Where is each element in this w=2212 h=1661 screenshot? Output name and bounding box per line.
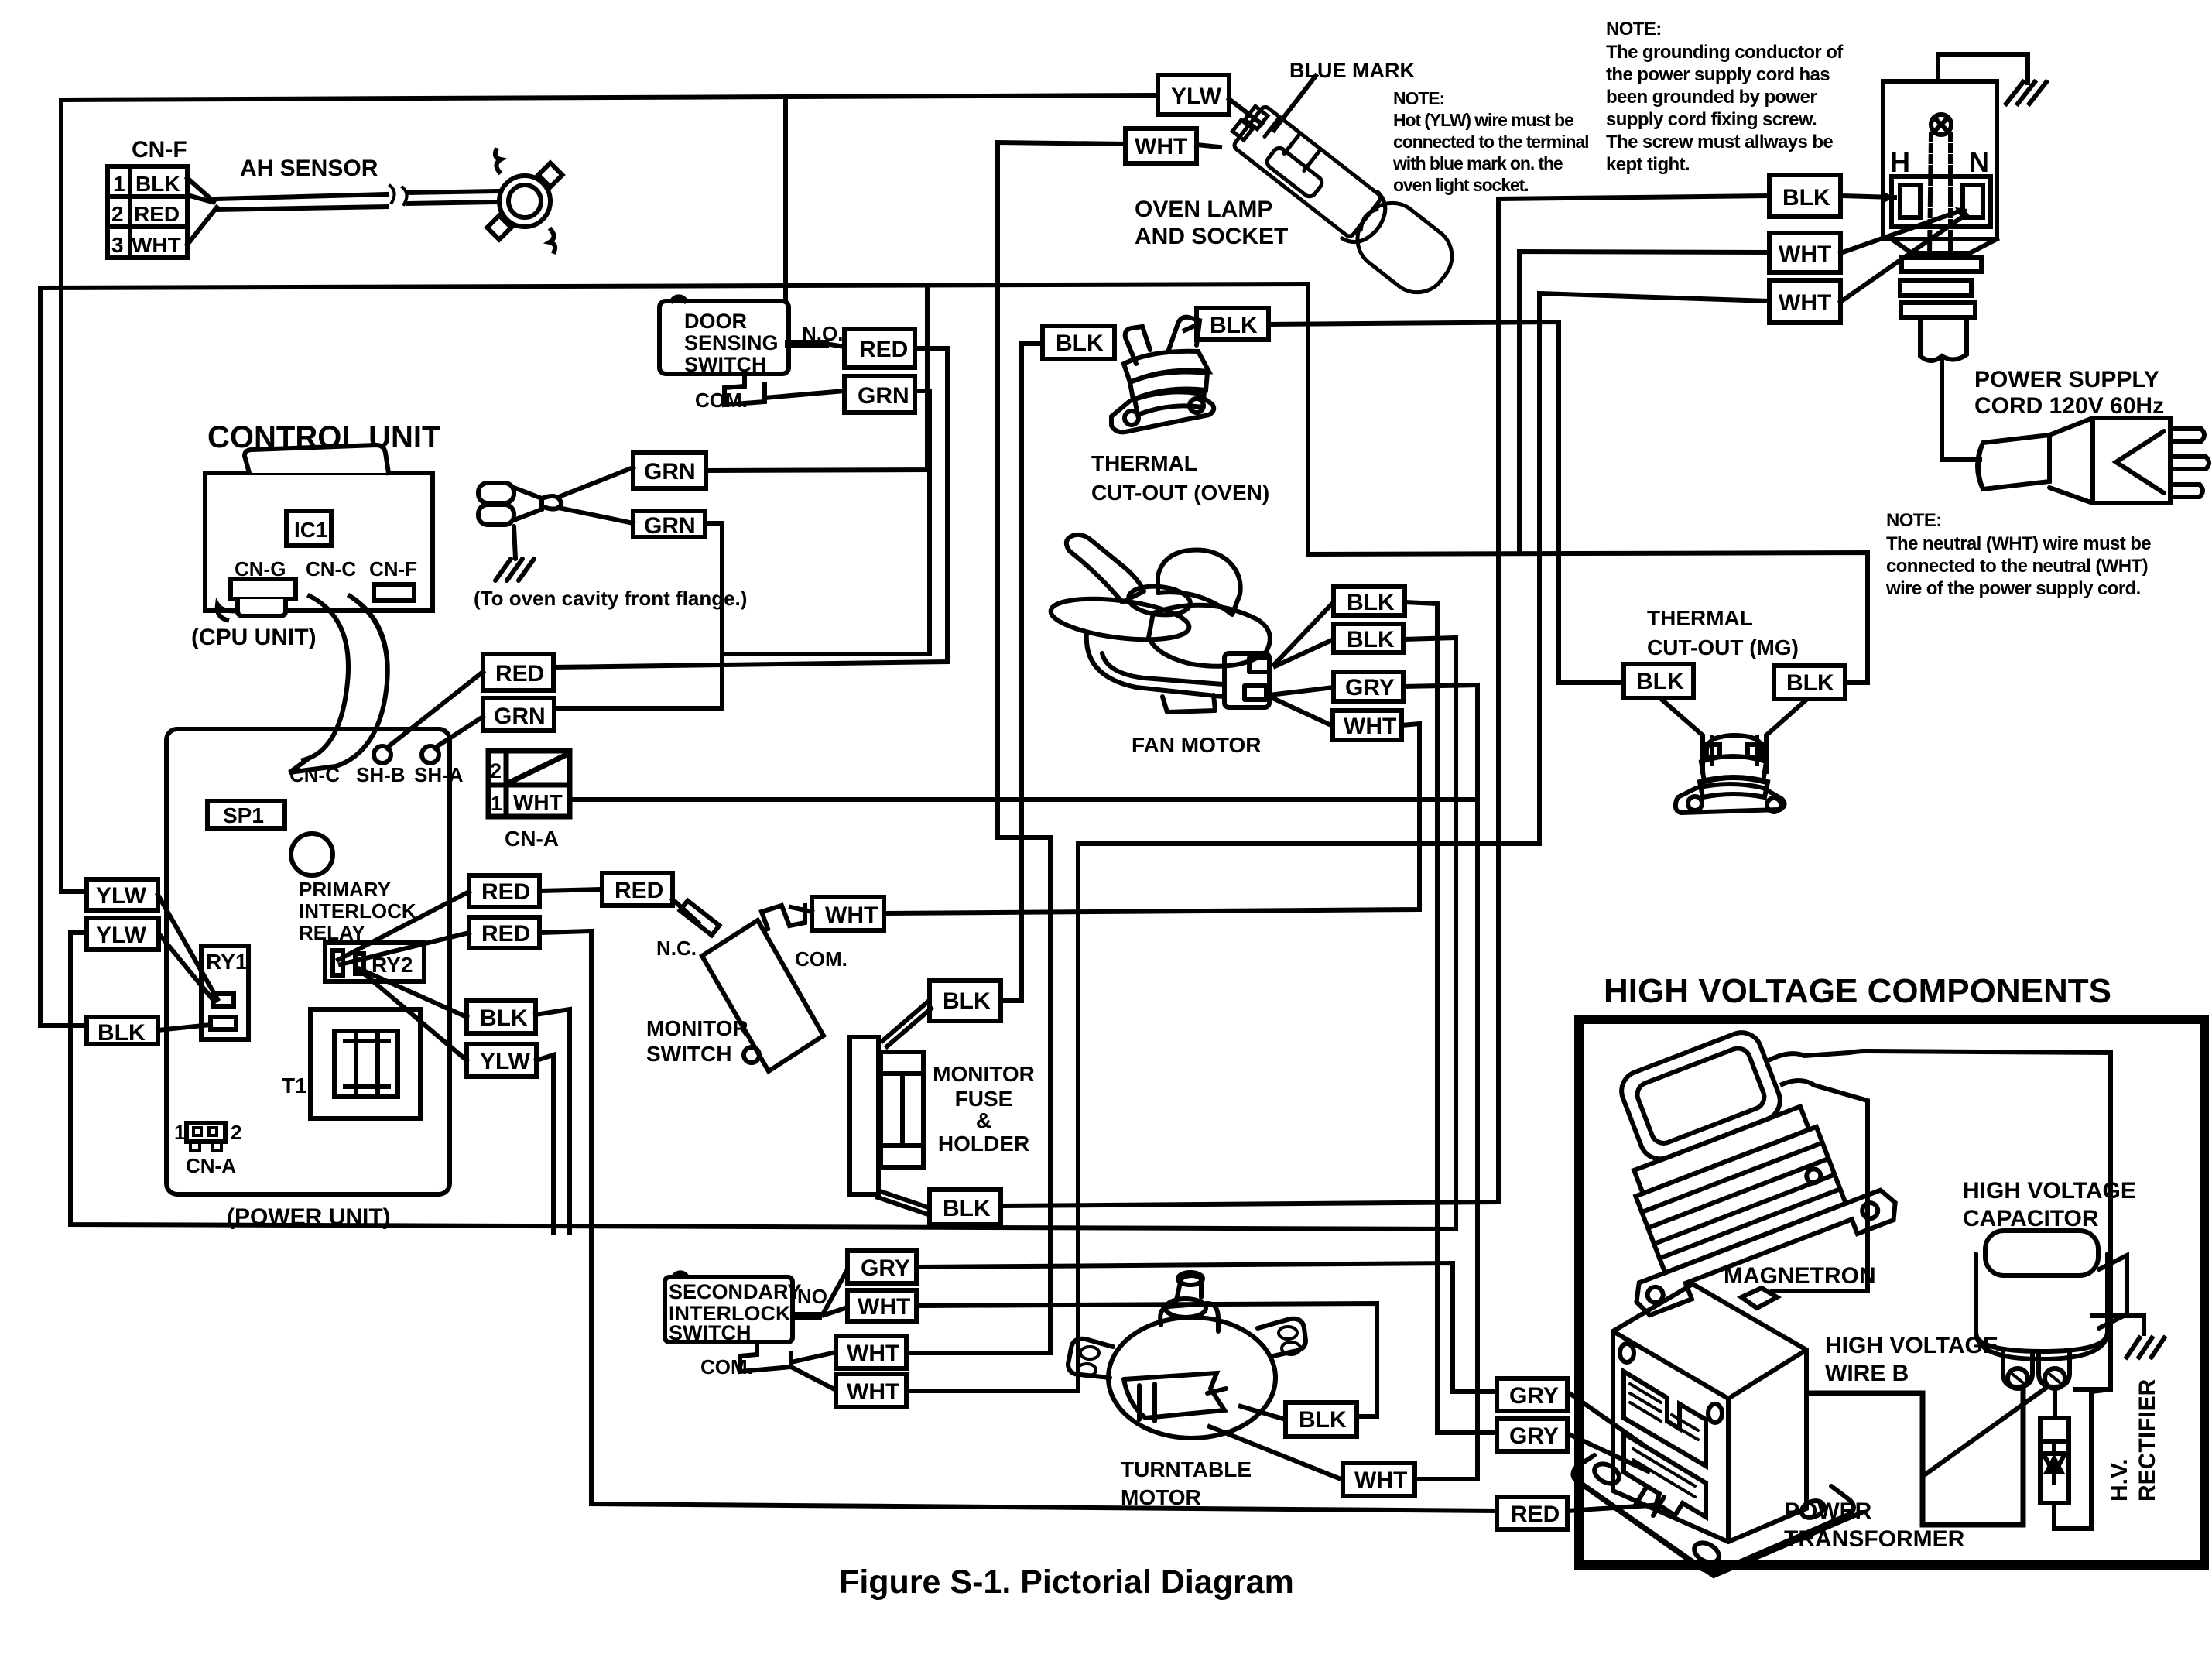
wire rectifier to frame: [2054, 1392, 2091, 1529]
BLK box turntable: [1286, 1402, 1357, 1437]
svg-text:BLK: BLK: [1347, 590, 1395, 615]
wire thermal oven BLK1 to monitor BLK top: [1001, 344, 1043, 1001]
svg-text:GRN: GRN: [644, 513, 696, 539]
svg-text:WHT: WHT: [513, 790, 563, 814]
svg-text:BLK: BLK: [1299, 1407, 1347, 1433]
svg-text:NOTE:: NOTE:: [1606, 19, 1662, 39]
BLK box thermal oven left: [1043, 308, 1624, 683]
svg-text:RED: RED: [134, 202, 180, 226]
svg-text:kept tight.: kept tight.: [1606, 154, 1690, 175]
COM terminal stub: [762, 906, 805, 929]
svg-text:2: 2: [111, 202, 124, 226]
wire COM to WHT2: [791, 1352, 836, 1362]
wire lug to GRN1: [559, 467, 633, 497]
BLK box fuse top: [930, 981, 1001, 1021]
svg-text:TRANSFORMER: TRANSFORMER: [1784, 1526, 1965, 1552]
wire COM bracket: [724, 374, 765, 405]
svg-text:DOOR: DOOR: [684, 310, 747, 333]
CN-F connector on CPU: [374, 584, 414, 601]
wire BLK to RY1: [158, 1025, 211, 1030]
svg-text:NOTE:: NOTE:: [1886, 510, 1942, 531]
high voltage components box: [1579, 1019, 2204, 1565]
svg-text:MONITOR: MONITOR: [646, 1016, 748, 1040]
YLW box left 2: [87, 918, 159, 950]
wire RED2 to NC stub: [673, 899, 698, 923]
thermal cut-out MG: [1624, 664, 1845, 774]
svg-text:N.O.: N.O.: [802, 322, 843, 345]
svg-text:CN-A: CN-A: [186, 1154, 236, 1177]
svg-text:CUT-OUT (MG): CUT-OUT (MG): [1647, 635, 1799, 659]
svg-text:POWER: POWER: [1784, 1498, 1872, 1524]
wire COM to WHT3: [791, 1367, 836, 1390]
wire capacitor to rectifier: [2053, 1389, 2057, 1418]
svg-text:WHT: WHT: [1344, 714, 1396, 739]
wire NO to GRY: [822, 1269, 847, 1316]
svg-text:BLK: BLK: [1782, 185, 1830, 211]
wire GRN2 down to board: [556, 523, 722, 708]
wire YLW2 diag to RY1: [159, 933, 214, 1002]
svg-text:CN-F: CN-F: [132, 137, 187, 163]
thermal cut-out oven drawing: [1111, 317, 1214, 433]
svg-text:CUT-OUT (OVEN): CUT-OUT (OVEN): [1091, 481, 1269, 505]
wire hot BLK feed from terminal to bundle: [906, 196, 1769, 1391]
svg-text:the power supply cord has: the power supply cord has: [1606, 64, 1830, 85]
svg-text:TURNTABLE: TURNTABLE: [1121, 1457, 1252, 1481]
svg-text:GRY: GRY: [1345, 675, 1395, 700]
wire YLW1 diag to RY1: [158, 895, 217, 999]
RED box door switch: [844, 329, 915, 368]
thermal cutout MG body: [1676, 735, 1785, 813]
wire fuse to BLK top (double diagonal): [882, 1002, 928, 1041]
CN-G connector: [231, 579, 296, 599]
wire MG prong right: [1766, 699, 1807, 774]
wire motor to BLK: [1238, 1406, 1286, 1420]
svg-text:been grounded by power: been grounded by power: [1606, 87, 1817, 108]
YLW box right of RY2: [467, 1044, 536, 1077]
primary interlock relay circle: [291, 834, 333, 875]
svg-text:THERMAL: THERMAL: [1091, 451, 1197, 475]
svg-text:Figure S-1. Pictorial Diagram: Figure S-1. Pictorial Diagram: [839, 1563, 1294, 1601]
wire capacitor diagonal: [1924, 1385, 2049, 1475]
svg-text:HIGH VOLTAGE: HIGH VOLTAGE: [1963, 1178, 2136, 1204]
svg-text:YLW: YLW: [96, 923, 147, 948]
svg-text:AH SENSOR: AH SENSOR: [240, 156, 378, 181]
svg-text:FAN MOTOR: FAN MOTOR: [1132, 733, 1261, 757]
wire top hot line to YLW box: [61, 95, 1158, 100]
svg-text:GRY: GRY: [1509, 1423, 1559, 1449]
RED box row1 second: [602, 873, 673, 906]
wire SH-A to GRN: [435, 717, 483, 748]
svg-text:BLK: BLK: [943, 988, 991, 1014]
wire WHT2 feed via bundle to interlock COM: [906, 293, 1769, 1391]
wire fan BLK2 to bottom rail: [1403, 638, 1456, 1229]
wire RY2 to RED1: [338, 892, 469, 960]
wire high voltage wire B: [1808, 1385, 2049, 1525]
svg-text:supply cord fixing screw.: supply cord fixing screw.: [1606, 109, 1817, 130]
svg-text:WHT: WHT: [1135, 134, 1187, 159]
svg-text:GRY: GRY: [1509, 1383, 1559, 1409]
RED box SH-B: [483, 654, 553, 690]
svg-text:BLK: BLK: [1056, 330, 1104, 356]
wire AH sensor cable upper: [215, 194, 387, 199]
terminal board outer box: [1883, 81, 1997, 239]
high voltage capacitor drawing: [1976, 1231, 2127, 1389]
svg-text:BLK: BLK: [98, 1020, 146, 1046]
svg-text:BLK: BLK: [1636, 669, 1684, 694]
svg-text:AND SOCKET: AND SOCKET: [1135, 224, 1288, 249]
svg-text:MAGNETRON: MAGNETRON: [1724, 1263, 1876, 1289]
oven lamp YLW box: [1158, 75, 1229, 115]
wire RY2 to RED2: [341, 933, 469, 964]
svg-text:GRN: GRN: [858, 383, 909, 409]
GRY box right 2: [1497, 1419, 1567, 1451]
oven lamp and socket drawing: [1221, 94, 1464, 305]
svg-text:Hot (YLW) wire must be: Hot (YLW) wire must be: [1393, 110, 1573, 130]
monitor switch body: [702, 920, 824, 1071]
svg-text:OVEN LAMP: OVEN LAMP: [1135, 197, 1272, 222]
svg-text:2: 2: [490, 759, 502, 783]
cord neck: [1920, 317, 1967, 361]
wire door switch hanger from top line: [783, 98, 788, 301]
svg-text:MOTOR: MOTOR: [1121, 1485, 1201, 1509]
CN-C ribbon cable: [303, 596, 348, 760]
magnetron drawing: [1560, 1002, 1902, 1317]
svg-text:(CPU UNIT): (CPU UNIT): [191, 625, 317, 650]
connector CN-F dividers: [128, 166, 132, 258]
fan motor drawing: [1049, 535, 1270, 712]
wire COM to WHT: [791, 907, 812, 912]
GRN box SH-A: [483, 698, 554, 731]
SH-B pad: [374, 746, 391, 763]
svg-text:WHT: WHT: [1779, 241, 1831, 267]
svg-text:HOLDER: HOLDER: [938, 1132, 1029, 1156]
terminal strip inner box: [1892, 176, 1991, 227]
svg-text:SP1: SP1: [223, 803, 264, 827]
wire fan BLK1 to GRY2 rail: [1405, 602, 1497, 1433]
wire CN-F fanout to cable: [187, 178, 215, 203]
svg-text:WHT: WHT: [1779, 290, 1831, 316]
wire outer-left vertical to BLK box: [40, 288, 87, 1026]
monitor fuse and holder: [850, 344, 1043, 1224]
RY2 box: [325, 943, 424, 981]
BLK box fan 2: [1334, 624, 1403, 652]
wire fan terminal diagonals: [1273, 602, 1334, 666]
turntable motor drawing: [1068, 1272, 1306, 1438]
wire enclosure right vertical x=1690: [1306, 284, 1310, 554]
GRY box interlock: [847, 1251, 916, 1283]
power unit board box: [166, 729, 450, 1194]
svg-text:SH-B: SH-B: [356, 763, 406, 786]
power supply cord drawing: [1977, 418, 2209, 503]
svg-text:connected to the neutral (WHT): connected to the neutral (WHT): [1886, 556, 2148, 577]
svg-text:RED: RED: [481, 921, 530, 947]
svg-text:WHT: WHT: [847, 1379, 899, 1405]
oven lamp WHT box: [1125, 128, 1197, 163]
svg-text:HIGH VOLTAGE COMPONENTS: HIGH VOLTAGE COMPONENTS: [1604, 972, 2111, 1010]
CN-A connector right (2/1 WHT): [488, 751, 570, 817]
BLK box thermal oven right: [1197, 308, 1269, 340]
svg-text:BLUE MARK: BLUE MARK: [1289, 59, 1415, 82]
svg-text:WHT: WHT: [132, 233, 181, 257]
svg-text:CN-C: CN-C: [289, 763, 340, 786]
wire capacitor to ground: [2090, 1316, 2166, 1359]
svg-text:COM.: COM.: [795, 947, 847, 971]
svg-text:with blue mark on. the: with blue mark on. the: [1392, 153, 1563, 173]
svg-text:CN-F: CN-F: [369, 557, 417, 580]
GRN box door switch: [844, 376, 915, 413]
wire prong to BLK right: [1183, 325, 1197, 331]
wire magnetron loop to capacitor: [1769, 1051, 2111, 1389]
svg-text:CAPACITOR: CAPACITOR: [1963, 1206, 2099, 1231]
wire AH sensor cable right: [409, 191, 498, 193]
RED box row1: [469, 875, 539, 907]
wire left vertical from top box to YLW1: [61, 100, 87, 892]
svg-text:WHT: WHT: [858, 1294, 910, 1320]
GRY box right 1: [1497, 1378, 1662, 1529]
wire magnetron to transformer top: [1770, 1081, 1868, 1291]
BLK box at terminal: [1769, 175, 1840, 217]
SP1 box: [207, 801, 285, 828]
BLK box right of RY2: [467, 1001, 536, 1033]
svg-text:BLK: BLK: [135, 172, 180, 196]
svg-text:RY1: RY1: [206, 950, 247, 974]
svg-text:BLK: BLK: [480, 1005, 528, 1031]
svg-text:MONITOR: MONITOR: [933, 1062, 1035, 1086]
svg-text:The grounding conductor of: The grounding conductor of: [1606, 42, 1844, 63]
svg-text:FUSE: FUSE: [955, 1087, 1013, 1111]
wire thermal oven right BLK to bundle: [1269, 322, 1624, 683]
svg-text:THERMAL: THERMAL: [1647, 606, 1753, 630]
wire NO to WHT1: [822, 1307, 847, 1316]
BLK box MG left: [1624, 664, 1693, 698]
secondary interlock switch: [665, 1251, 1497, 1416]
svg-text:2: 2: [231, 1121, 241, 1144]
N terminal dashed: [1963, 185, 1983, 217]
svg-text:WIRE B: WIRE B: [1825, 1361, 1909, 1386]
svg-text:WHT: WHT: [1354, 1468, 1407, 1493]
wire YLW right drop: [536, 1055, 553, 1232]
RY1 box: [201, 946, 248, 1039]
svg-text:YLW: YLW: [96, 883, 147, 909]
svg-text:POWER SUPPLY: POWER SUPPLY: [1974, 367, 2159, 392]
svg-text:SWITCH: SWITCH: [669, 1321, 751, 1344]
ground symbol at terminal board: [2006, 82, 2046, 104]
svg-text:RED: RED: [1511, 1502, 1560, 1527]
svg-text:&: &: [976, 1108, 991, 1132]
AH sensor body circle: [499, 176, 550, 227]
wire lug to GRN2: [559, 508, 633, 523]
SH-A pad: [422, 746, 439, 763]
wire cord to plug: [1942, 358, 1980, 460]
svg-text:YLW: YLW: [480, 1049, 531, 1074]
wire monitor WHT to fan WHT drop: [884, 724, 1419, 913]
wire RY2 to YLW: [362, 972, 467, 1060]
svg-text:NO: NO: [797, 1285, 827, 1308]
wire fan GRY to turntable WHT rail: [1403, 685, 1478, 1479]
CPU unit board box: [205, 473, 433, 611]
wire motor to WHT: [1207, 1426, 1343, 1480]
WHT box 2 at terminal: [1769, 280, 1840, 323]
svg-text:GRN: GRN: [644, 459, 696, 485]
dashed lamp leads: [1930, 135, 1931, 255]
WHT box 1 at terminal: [1769, 233, 1840, 272]
H.V. rectifier: [2040, 1389, 2111, 1529]
wire WHT box to socket stub: [1197, 145, 1220, 147]
CPU ribbon fold top: [245, 445, 389, 473]
wire MG prong left: [1660, 698, 1703, 774]
svg-text:T1: T1: [282, 1074, 307, 1098]
IC1 box: [286, 511, 331, 546]
AH sensor tabs: [538, 163, 562, 187]
door sensing switch box: [553, 296, 947, 667]
wire N.O. stub: [789, 340, 825, 348]
svg-text:1: 1: [113, 172, 125, 196]
wire BLK into H terminal with arrow: [1840, 196, 1895, 197]
terminal board taper: [1892, 239, 1997, 253]
wire WHT1 diagonal to N terminal: [1840, 211, 1961, 253]
svg-text:BLK: BLK: [1347, 627, 1395, 652]
svg-text:3: 3: [111, 233, 124, 257]
svg-text:CORD 120V 60Hz: CORD 120V 60Hz: [1974, 393, 2164, 419]
svg-text:INTERLOCK: INTERLOCK: [299, 899, 416, 923]
GRN box 1: [633, 453, 706, 488]
wire WHT lamp feed from corner x=1289: [906, 142, 1125, 1353]
svg-text:CN-G: CN-G: [235, 557, 286, 580]
wire GRY2 to transformer: [1567, 1433, 1650, 1472]
GRN box 2: [633, 511, 705, 537]
wire RED1 to RED2: [539, 889, 602, 891]
WHT box fan: [1333, 711, 1402, 740]
RED box row2: [469, 917, 539, 948]
svg-text:1: 1: [174, 1121, 185, 1144]
wire fuse to BLK bottom (double diagonal): [882, 1192, 928, 1207]
wire RED to transformer: [1567, 1505, 1662, 1511]
WHT box interlock NO: [847, 1290, 916, 1321]
svg-text:The neutral (WHT) wire must be: The neutral (WHT) wire must be: [1886, 533, 2151, 554]
wire COM to GRN box: [765, 391, 844, 398]
svg-text:RED: RED: [495, 661, 544, 687]
blue mark pointer line: [1274, 76, 1316, 130]
svg-text:SECONDARY: SECONDARY: [669, 1280, 802, 1303]
WHT box interlock COM 2: [836, 1374, 906, 1407]
svg-text:BLK: BLK: [1210, 313, 1258, 338]
wire WHT2 diagonal to N terminal: [1840, 214, 1966, 302]
svg-text:NOTE:: NOTE:: [1393, 88, 1444, 108]
wire YLW box to socket: [1229, 99, 1262, 124]
svg-text:RECTIFIER: RECTIFIER: [2135, 1378, 2160, 1502]
wire WHT1 feed to bundle: [1519, 252, 1769, 553]
WHT box monitor: [812, 897, 884, 930]
BLK box MG right: [1774, 666, 1845, 699]
svg-text:CN-A: CN-A: [505, 827, 559, 851]
svg-text:H: H: [1890, 146, 1910, 178]
svg-text:RELAY: RELAY: [299, 921, 365, 944]
svg-text:1: 1: [491, 792, 502, 815]
wire SH-B to RED: [387, 672, 483, 748]
wire RED row2 to bottom RED rail: [539, 931, 1497, 1511]
power transformer drawing: [1573, 1284, 1862, 1576]
svg-text:BLK: BLK: [1786, 670, 1834, 696]
wire RY2 to BLK: [360, 969, 467, 1017]
svg-text:RED: RED: [859, 337, 908, 362]
svg-text:WHT: WHT: [825, 902, 878, 928]
H terminal dashed: [1900, 185, 1920, 217]
monitor switch assembly: [673, 724, 1419, 1071]
lamp symbol on terminal board: [1931, 115, 1951, 135]
GRY box fan: [1334, 672, 1403, 701]
wire YLW2 to bottom rail: [70, 933, 1456, 1229]
NC terminal stub: [680, 901, 720, 936]
BLK box left: [87, 1017, 158, 1044]
RED box right: [1497, 1497, 1567, 1529]
wire interlock WHT1 to turntable BLK: [916, 1303, 1377, 1416]
wire BLK right drop: [536, 1009, 570, 1232]
svg-text:oven light socket.: oven light socket.: [1393, 175, 1528, 195]
svg-text:N.C.: N.C.: [656, 937, 697, 960]
svg-text:PRIMARY: PRIMARY: [299, 878, 391, 901]
YLW box left 1: [87, 879, 158, 910]
T1 transformer: [310, 1009, 420, 1118]
wire interlock GRY to fan drop: [916, 1263, 1497, 1392]
svg-text:N: N: [1969, 146, 1989, 178]
wire NO stub: [793, 1312, 822, 1320]
svg-text:SWITCH: SWITCH: [646, 1042, 731, 1066]
svg-text:GRY: GRY: [861, 1255, 910, 1281]
ground symbol capacitor: [2125, 1336, 2166, 1359]
CN-A connector power unit: [187, 1123, 225, 1142]
wire GRN1 to cavity enclosure: [706, 285, 927, 471]
BLK box fuse bottom: [930, 1190, 1001, 1224]
wire door GRN down to SH-A GRN: [722, 391, 930, 654]
svg-text:(To oven cavity front flange.): (To oven cavity front flange.): [474, 587, 747, 610]
strain relief bars: [1902, 258, 1981, 272]
svg-text:SWITCH: SWITCH: [684, 353, 766, 376]
svg-text:The screw must allways be: The screw must allways be: [1606, 132, 1833, 152]
svg-text:WHT: WHT: [847, 1341, 899, 1366]
ground lug to oven cavity: [478, 483, 561, 580]
wire enclosure horizontal y=368: [40, 284, 1308, 288]
svg-text:SENSING: SENSING: [684, 331, 779, 354]
svg-text:wire of the power supply cord.: wire of the power supply cord.: [1885, 578, 2141, 599]
BLK box fan 1: [1334, 587, 1405, 615]
svg-text:H.V.: H.V.: [2107, 1458, 2132, 1502]
WHT box turntable: [1343, 1463, 1415, 1496]
svg-text:SH-A: SH-A: [414, 763, 464, 786]
wire GRY1 to transformer: [1567, 1392, 1645, 1446]
wire AH sensor cable break: [390, 186, 407, 204]
svg-text:COM.: COM.: [695, 389, 748, 412]
wire COM bracket: [740, 1342, 791, 1372]
svg-text:COM.: COM.: [700, 1355, 753, 1378]
WHT box interlock COM 1: [836, 1336, 906, 1368]
wire CN-A WHT long feed: [570, 797, 1478, 802]
wire terminal board ground jumper: [1938, 54, 2028, 83]
svg-text:YLW: YLW: [1171, 84, 1222, 109]
svg-text:GRN: GRN: [494, 704, 546, 729]
svg-text:RED: RED: [481, 879, 530, 905]
wire door RED to SH-B RED box: [553, 348, 947, 667]
svg-text:BLK: BLK: [943, 1196, 991, 1221]
svg-text:RED: RED: [615, 878, 663, 903]
svg-text:connected to the terminal: connected to the terminal: [1393, 132, 1588, 152]
connector CN-F outer box: [108, 166, 187, 258]
svg-text:IC1: IC1: [294, 518, 328, 542]
wire y=716 horizontal to thermal MG: [1308, 553, 1868, 683]
svg-text:CN-C: CN-C: [306, 557, 356, 580]
svg-text:HIGH VOLTAGE: HIGH VOLTAGE: [1825, 1333, 1998, 1358]
